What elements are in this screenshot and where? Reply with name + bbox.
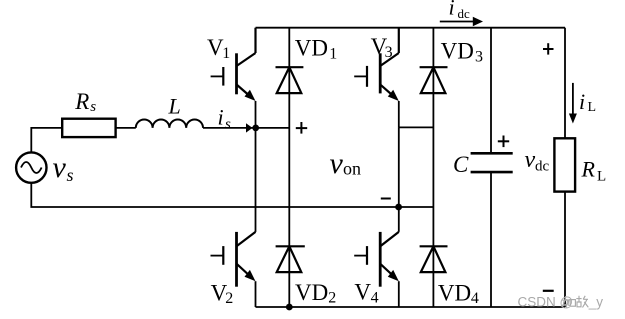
wire node B connector V3-VD3 [399,126,434,128]
svg-text:3: 3 [385,44,393,61]
node dot at V4 leg on bottom source wire [395,204,402,211]
wire bottom DC rail [256,306,566,308]
diode VD2 [276,246,305,272]
svg-text:C: C [453,152,469,177]
svg-text:v: v [525,147,536,173]
svg-text:dc: dc [535,159,550,175]
label V3 [371,34,393,61]
svg-text:i: i [218,105,224,130]
svg-text:4: 4 [371,289,379,306]
svg-text:i: i [449,0,455,20]
wire VD1/VD2 column [288,28,290,307]
svg-text:L: L [597,169,606,185]
svg-text:L: L [168,94,181,119]
svg-text:1: 1 [329,45,337,62]
polarity plus of vdc (top right) [543,43,554,54]
svg-text:2: 2 [225,290,233,307]
wire top DC rail [256,27,566,29]
label VD1 [295,36,337,63]
inductor L [136,120,203,128]
label VD4 [438,281,479,308]
wire VD3/VD4 column [432,28,434,307]
polarity plus of capacitor [498,136,509,148]
polarity minus of vdc (bottom right) [543,290,554,292]
svg-text:3: 3 [475,48,483,65]
AC source vs [16,152,46,182]
wire Rs to L [116,127,136,129]
label VD2 [295,280,336,307]
svg-text:R: R [74,89,89,114]
label V2 [211,281,234,308]
svg-text:on: on [343,159,361,179]
svg-text:VD: VD [295,36,328,61]
resistor Rs [62,119,115,137]
node dot VD2 leg at bottom rail [286,304,293,311]
svg-text:v: v [330,147,344,180]
label V4 [354,280,378,307]
svg-text:R: R [581,157,596,182]
wire source bottom lead [31,183,433,207]
IGBT V2 [211,128,256,307]
svg-text:L: L [588,100,597,115]
current arrow idc [440,21,475,23]
resistor RL [554,138,575,191]
polarity minus of von [381,198,391,200]
IGBT V3 [354,28,399,128]
label is [218,105,232,133]
svg-text:_y: _y [588,295,604,310]
capacitor C column lower wire [490,172,492,307]
current arrow iL [572,83,574,116]
label VD3 [441,39,483,66]
svg-text:1: 1 [222,45,230,62]
polarity plus of von [296,122,307,134]
svg-text:V: V [354,280,371,305]
label vdc [525,147,550,175]
svg-text:s: s [90,99,96,115]
svg-text:i: i [579,89,585,114]
node A junction dot [252,125,259,132]
wire right rail upper segment [564,28,566,139]
watermark [518,295,604,310]
diode VD3 [420,67,448,93]
svg-text:dc: dc [458,6,471,21]
svg-text:v: v [53,151,67,184]
diode VD4 [420,246,448,272]
label idc [449,0,471,21]
capacitor C plates [471,153,513,172]
wire right rail lower segment [564,192,566,307]
svg-text:s: s [67,165,74,185]
label vs [53,151,74,185]
label V1 [207,35,230,62]
capacitor C column upper wire [490,28,492,154]
wire source top lead [31,128,62,152]
svg-text:VD: VD [438,281,471,306]
svg-text:4: 4 [471,290,479,307]
IGBT V1 [211,28,256,128]
svg-text:VD: VD [295,280,328,305]
label RL [581,157,607,185]
label Rs [74,89,96,115]
svg-text:s: s [225,117,231,133]
label iL [579,89,596,115]
diode VD1 [276,67,304,93]
svg-text:VD: VD [441,39,474,64]
label von [330,147,362,180]
IGBT V4 [354,127,399,307]
wire L to bridge node A with is arrow [203,127,289,129]
svg-text:2: 2 [328,290,336,307]
